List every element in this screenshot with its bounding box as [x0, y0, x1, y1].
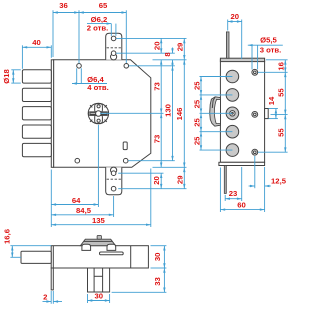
dim 64: [51, 204, 98, 206]
bolt 2: [22, 88, 51, 101]
dim 16,6: [10, 245, 51, 247]
bolt end circle 3 with key hole: [226, 107, 239, 120]
dim 2: [50, 291, 52, 304]
svg-text:2 отв.: 2 отв.: [87, 23, 109, 32]
washer hole 1: [252, 69, 258, 75]
svg-text:130: 130: [164, 104, 173, 117]
dim 30 right: [151, 245, 167, 247]
bolt 4: [22, 125, 51, 138]
bolt end circle 5: [226, 144, 239, 157]
dim 20 top right: [160, 38, 162, 53]
dim 33: [112, 291, 167, 293]
svg-text:12,5: 12,5: [271, 176, 287, 185]
svg-text:55: 55: [277, 128, 286, 137]
plan cap: [80, 235, 115, 250]
svg-text:146: 146: [175, 108, 184, 121]
svg-text:8: 8: [163, 52, 172, 57]
svg-text:29: 29: [176, 43, 185, 52]
dim 146: [183, 60, 185, 168]
plan separator line: [130, 246, 132, 268]
top rod: [226, 32, 229, 58]
bolt end circle 1: [226, 70, 239, 83]
bolt end circle 4: [226, 125, 239, 138]
right ext lines: [266, 59, 288, 61]
svg-text:25: 25: [193, 136, 202, 145]
svg-text:25: 25: [193, 118, 202, 127]
dim 40: [21, 45, 23, 69]
bolt 5: [22, 143, 51, 156]
latch lever: [210, 97, 221, 126]
dim 55 lower: [284, 114, 286, 152]
cross-key cylinder: [88, 103, 108, 123]
dim 25 c: [200, 113, 202, 131]
svg-text:135: 135: [92, 216, 106, 225]
side body: [220, 60, 264, 163]
keyhole slot: [123, 142, 127, 150]
case hole bottom-right: [123, 158, 128, 163]
dim 60: [219, 168, 221, 213]
case hole top-left: [77, 64, 82, 69]
dim 73 lower: [160, 113, 162, 167]
plan body: [51, 246, 148, 268]
dim 20 (rod to axis): [227, 20, 229, 31]
svg-text:25: 25: [193, 99, 202, 108]
dim 25 d: [200, 132, 202, 150]
dim 29 top right: [183, 38, 185, 59]
dim 130: [172, 66, 174, 161]
side top cap band: [220, 58, 264, 61]
svg-text:36: 36: [59, 1, 68, 10]
dim 36: [53, 12, 79, 14]
washer hole 3: [252, 149, 258, 155]
bottom extension lines: [50, 170, 52, 228]
svg-text:16,6: 16,6: [3, 229, 12, 244]
svg-text:25: 25: [193, 81, 202, 90]
svg-text:14: 14: [267, 96, 276, 105]
svg-text:4 отв.: 4 отв.: [87, 83, 109, 92]
svg-text:73: 73: [153, 82, 162, 91]
svg-text:Ø5,5: Ø5,5: [260, 36, 277, 45]
dim 135: [51, 224, 151, 226]
dim 23: [224, 195, 226, 201]
bottom rod: [224, 166, 226, 194]
svg-text:84,5: 84,5: [76, 206, 92, 215]
dim 55 upper: [284, 72, 286, 114]
dim 84,5: [51, 214, 113, 216]
plan faceplate edge line: [52, 246, 54, 268]
plan bolt: [21, 251, 51, 263]
strike tab: [265, 109, 269, 119]
bolt 1: [22, 70, 51, 83]
case hole top-right: [124, 64, 129, 69]
dim 25 a: [200, 77, 202, 95]
dim 14: [269, 108, 278, 110]
svg-text:Ø18: Ø18: [2, 69, 11, 84]
dim Ø18: [11, 69, 20, 71]
ext lines top: [52, 10, 54, 57]
svg-text:2: 2: [43, 292, 47, 301]
svg-text:65: 65: [99, 1, 108, 10]
svg-text:33: 33: [153, 277, 162, 286]
plan faceplate below body: [51, 268, 53, 290]
dim 73 upper: [160, 60, 162, 114]
svg-text:23: 23: [229, 189, 238, 198]
dim 20 bottom right: [160, 173, 162, 189]
left ext lines to circles: [200, 76, 233, 78]
svg-text:20: 20: [152, 176, 161, 185]
dim 65: [79, 12, 126, 14]
svg-text:30: 30: [95, 291, 104, 300]
top mounting tab: [106, 33, 122, 60]
dim 16: [284, 60, 286, 73]
dim 25 b: [200, 95, 202, 113]
svg-text:16: 16: [276, 62, 285, 71]
faceplate (front view): [51, 60, 53, 168]
case hole bottom-left: [75, 158, 80, 163]
svg-text:55: 55: [277, 88, 286, 97]
svg-text:64: 64: [72, 196, 81, 205]
plan cylinder housing: [88, 268, 110, 292]
side bottom lip: [219, 162, 265, 165]
svg-text:20: 20: [153, 42, 162, 51]
bolt end circle 2: [226, 89, 239, 102]
dim 29 bottom right: [183, 167, 185, 188]
dim 12,5: [254, 156, 256, 188]
bottom mounting tab: [106, 167, 122, 195]
svg-text:73: 73: [153, 135, 162, 144]
svg-text:3 отв.: 3 отв.: [260, 45, 282, 54]
svg-text:30: 30: [153, 253, 162, 262]
svg-text:20: 20: [231, 12, 240, 21]
svg-text:40: 40: [32, 38, 41, 47]
bolt 3: [22, 107, 51, 120]
svg-text:29: 29: [176, 176, 185, 185]
lock case (front view): [54, 60, 151, 168]
svg-text:60: 60: [237, 200, 246, 209]
plan slot: [100, 252, 124, 255]
dim 30 bottom: [87, 294, 89, 303]
right side extension lines: [116, 37, 186, 39]
dim 8: [172, 48, 174, 54]
washer hole 2: [252, 112, 258, 118]
